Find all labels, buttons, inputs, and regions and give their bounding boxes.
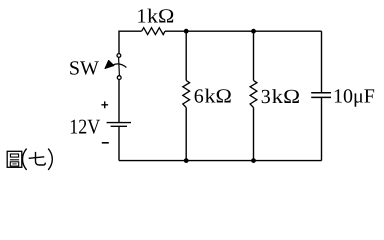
resistor R 1kOhm zigzag: [142, 28, 165, 35]
switch SW arrowhead: [105, 60, 114, 68]
battery polarity label minus: [102, 142, 109, 144]
node junction dot top-right: [251, 29, 256, 34]
capacitor C 10uF top plate: [311, 92, 331, 94]
wire branch capacitor lower: [321, 97, 323, 160]
wire left vertical upper (corner to switch): [118, 31, 120, 54]
node junction dot bottom-left: [184, 158, 189, 163]
wire branch 6k upper: [185, 31, 187, 80]
wire branch 3k upper: [253, 31, 255, 80]
figure label glyph seven: [29, 152, 46, 165]
battery 12V positive plate (long): [107, 122, 131, 124]
node junction dot top-left: [184, 29, 189, 34]
figure label glyph tu (enclosure): [7, 151, 22, 167]
wire branch 6k lower: [185, 108, 187, 161]
resistor R 6kOhm zigzag: [183, 81, 190, 108]
svg-text:6: 6: [194, 85, 204, 107]
node junction dot bottom-right: [251, 158, 256, 163]
svg-text:10μF: 10μF: [333, 86, 375, 108]
wire top horizontal left segment: [119, 30, 142, 32]
wire bottom horizontal: [119, 160, 322, 162]
switch SW bottom contact circle: [117, 76, 121, 80]
svg-text:kΩ: kΩ: [272, 86, 300, 108]
svg-text:kΩ: kΩ: [205, 85, 232, 107]
wire left vertical lower (battery to bottom): [118, 126, 120, 160]
figure label close paren: [48, 149, 52, 170]
svg-text:SW: SW: [69, 57, 99, 79]
wire branch 3k lower: [253, 108, 255, 161]
capacitor C 10uF bottom plate: [311, 96, 331, 98]
switch SW top contact circle: [117, 54, 121, 58]
wire left vertical middle (switch to battery): [118, 80, 120, 123]
resistor R 3kOhm zigzag: [250, 81, 257, 108]
svg-text:12V: 12V: [69, 114, 100, 138]
svg-text:1: 1: [137, 5, 147, 27]
wire top horizontal right segment: [165, 30, 322, 32]
switch SW arrow arc: [112, 64, 126, 68]
switch SW blade: [118, 58, 121, 76]
battery polarity label plus: [101, 101, 108, 108]
svg-text:kΩ: kΩ: [147, 5, 174, 27]
figure label open paren: [23, 149, 27, 170]
wire branch capacitor upper: [321, 31, 323, 93]
svg-text:3: 3: [261, 86, 271, 108]
battery 12V negative plate (short): [111, 125, 127, 127]
